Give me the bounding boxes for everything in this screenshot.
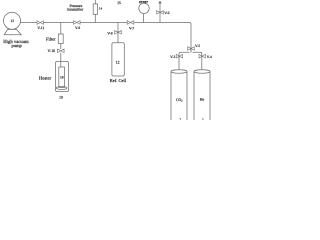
svg-text:transmitter: transmitter	[67, 8, 84, 12]
svg-text:V-7: V-7	[129, 26, 134, 30]
svg-text:He: He	[200, 98, 205, 102]
wire V-7 to corner	[134, 23, 191, 53]
svg-text:19: 19	[59, 96, 63, 100]
wire filter to V-10	[60, 44, 62, 50]
ref cell vessel 12	[112, 43, 124, 76]
manifold wire to cylinders	[179, 49, 202, 71]
svg-text:2: 2	[202, 118, 204, 120]
svg-text:V-6: V-6	[164, 11, 169, 15]
svg-text:Filter: Filter	[46, 36, 56, 41]
svg-text:V-4: V-4	[207, 55, 212, 59]
wire V-10 to heater	[60, 53, 62, 67]
svg-text:18: 18	[60, 75, 64, 79]
filter F	[58, 34, 63, 44]
valve V-9	[74, 21, 81, 25]
wire V-11 to V-9	[43, 22, 73, 24]
svg-text:Ref. Cell: Ref. Cell	[110, 78, 127, 83]
wire ref cell branch	[117, 23, 119, 43]
heater vessel 19	[56, 62, 69, 92]
valve V-7	[127, 21, 134, 25]
He cylinder 2	[194, 72, 210, 121]
pressure gauge	[139, 3, 149, 13]
svg-text:V-5: V-5	[195, 44, 200, 48]
svg-text:V-8: V-8	[107, 31, 113, 35]
svg-text:15: 15	[117, 1, 121, 5]
svg-text:V-11: V-11	[37, 26, 44, 30]
svg-text:12: 12	[116, 60, 120, 64]
pressure transmitter 14	[93, 4, 97, 14]
valve V-3	[176, 54, 182, 58]
svg-text:V-9: V-9	[75, 26, 80, 30]
svg-text:14: 14	[99, 7, 103, 11]
vent arrow	[158, 1, 161, 4]
valve V-5	[188, 47, 195, 50]
valve V-10	[58, 49, 65, 53]
svg-text:13: 13	[10, 19, 14, 23]
wire gauge stem	[143, 14, 145, 23]
svg-text:gauge: gauge	[139, 0, 148, 4]
wire pump to V-11	[21, 22, 37, 24]
wire transmitter stem up	[94, 0, 96, 4]
wire filter branch	[60, 23, 62, 35]
valve V-6	[157, 11, 164, 14]
valve V-11	[37, 21, 43, 25]
heater inner tube 18	[59, 67, 65, 88]
valve V-4	[199, 54, 205, 58]
wire transmitter stem down	[94, 14, 96, 22]
valve V-8	[115, 31, 122, 35]
svg-text:pump: pump	[11, 43, 22, 48]
svg-text:V-3: V-3	[170, 55, 175, 59]
CO2 cylinder 1	[171, 72, 187, 121]
svg-text:1: 1	[179, 118, 181, 120]
heater bottom disc	[56, 87, 67, 90]
svg-text:CO2: CO2	[176, 98, 183, 103]
wire vent line	[159, 3, 161, 23]
svg-text:Heater: Heater	[39, 76, 52, 81]
svg-text:V-10: V-10	[47, 49, 55, 53]
pump P13	[4, 12, 22, 35]
wire V-9 to V-7	[80, 22, 127, 24]
